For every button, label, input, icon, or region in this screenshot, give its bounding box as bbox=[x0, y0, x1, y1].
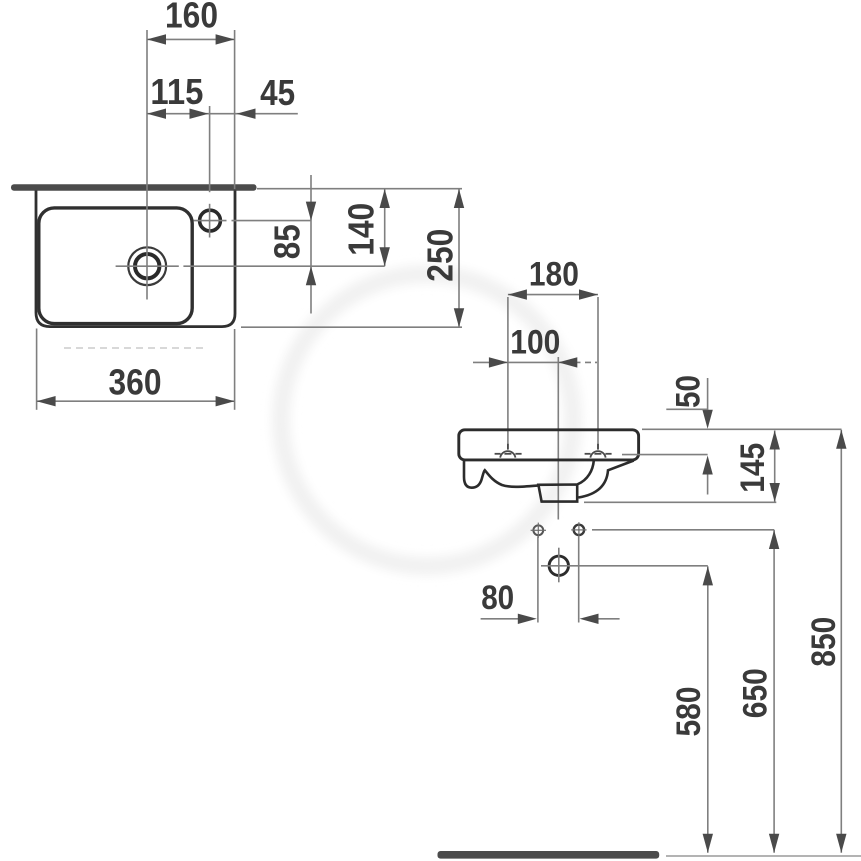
extension line right upper bbox=[234, 30, 236, 189]
towel rail dashed bbox=[64, 347, 206, 349]
dimension 180 line bbox=[508, 294, 598, 296]
centerline drain vertical bbox=[146, 30, 148, 300]
drain center leader bbox=[577, 565, 708, 567]
rim top leader bbox=[642, 428, 842, 430]
svg-text:580: 580 bbox=[670, 687, 708, 737]
dimension 580 line bbox=[707, 566, 709, 852]
svg-text:85: 85 bbox=[267, 224, 308, 259]
svg-text:100: 100 bbox=[510, 324, 560, 362]
sink outer outline bbox=[36, 191, 235, 327]
basin inner outline bbox=[39, 208, 192, 324]
floor bar bbox=[438, 851, 660, 859]
drain leader bbox=[183, 265, 384, 267]
dimension 85 line bbox=[310, 175, 312, 314]
svg-text:115: 115 bbox=[150, 71, 203, 112]
construction line right tap bbox=[597, 297, 599, 450]
dimension 50 bbox=[707, 378, 709, 426]
drain outer circle bbox=[128, 247, 166, 285]
svg-text:145: 145 bbox=[734, 443, 772, 493]
tap level leader bbox=[622, 454, 708, 456]
dimension 100 line bbox=[473, 361, 581, 363]
countertop bar bbox=[11, 184, 257, 191]
svg-text:45: 45 bbox=[260, 72, 295, 113]
svg-text:160: 160 bbox=[165, 0, 218, 36]
bottom leader bbox=[241, 326, 462, 328]
dimension 45 tail bbox=[237, 109, 256, 119]
construction line left tap bbox=[507, 297, 509, 450]
dimension 145 line bbox=[774, 431, 776, 503]
centerline faucet vertical bbox=[209, 106, 211, 192]
extension line left lower bbox=[36, 329, 38, 410]
bowl right outer arc bbox=[579, 461, 634, 498]
dimension 850 line bbox=[840, 430, 842, 853]
drain circle front bbox=[549, 556, 568, 575]
floor thin line bbox=[666, 855, 861, 857]
drain crosshair horizontal bbox=[116, 265, 179, 267]
construction line center bbox=[557, 357, 559, 520]
dimension 250 line bbox=[458, 189, 460, 327]
svg-text:250: 250 bbox=[419, 229, 460, 282]
drain outlet trapezoid bbox=[538, 485, 577, 502]
svg-text:360: 360 bbox=[109, 362, 162, 403]
dimension 160 line bbox=[147, 38, 235, 40]
svg-text:850: 850 bbox=[805, 617, 843, 667]
mounting hole right bbox=[571, 522, 586, 537]
dimension 80 bbox=[481, 618, 519, 620]
svg-text:650: 650 bbox=[736, 668, 774, 718]
countertop leader bbox=[257, 188, 462, 190]
rim bbox=[459, 430, 639, 460]
basin underside left lug and swoop bbox=[464, 460, 539, 487]
tap mark left bbox=[495, 444, 522, 458]
faucet leader bbox=[194, 220, 227, 222]
svg-text:80: 80 bbox=[481, 579, 514, 617]
hole extension right bbox=[578, 537, 580, 623]
drain inner circle bbox=[135, 254, 159, 278]
faucet hole bbox=[200, 210, 221, 231]
svg-text:140: 140 bbox=[341, 203, 382, 256]
dimension 115 line bbox=[147, 113, 298, 115]
tap mark right bbox=[585, 444, 612, 458]
dimension 360 line bbox=[37, 400, 235, 402]
bowl right inner arc bbox=[578, 461, 594, 485]
extension line right lower bbox=[234, 329, 236, 410]
svg-text:180: 180 bbox=[529, 256, 579, 294]
bottom outlet leader bbox=[584, 501, 776, 503]
mounting hole leader bbox=[592, 529, 774, 531]
mounting hole left bbox=[531, 523, 546, 538]
dimension 650 line bbox=[773, 530, 775, 853]
dimension 140 line bbox=[384, 189, 386, 266]
svg-text:50: 50 bbox=[670, 375, 708, 408]
drain crosshair front bbox=[541, 565, 577, 567]
hole extension left bbox=[537, 537, 539, 623]
